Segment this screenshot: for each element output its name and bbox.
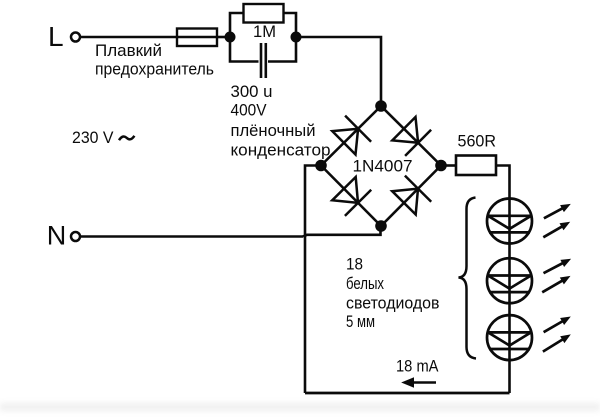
LED3 light arrow b: [543, 334, 571, 351]
bridge edge left-bottom: [321, 166, 381, 227]
diode D3: [332, 177, 371, 216]
resistor R1 1M: [244, 4, 284, 23]
wire bridge left to minus rail: [305, 166, 321, 394]
resistor R2 560R: [456, 156, 496, 176]
bridge edge top-right: [381, 106, 441, 166]
svg-text:1M: 1M: [253, 22, 276, 41]
wire N jog to bridge bottom: [303, 226, 381, 237]
LED3 light arrow a: [544, 317, 571, 333]
wire bottom rail: [305, 392, 510, 395]
svg-text:Плавкий: Плавкий: [95, 41, 162, 60]
svg-text:5 мм: 5 мм: [346, 312, 375, 331]
wire fuse to node A: [217, 36, 230, 39]
svg-text:18 mA: 18 mA: [396, 357, 439, 376]
svg-text:белых: белых: [346, 274, 384, 293]
svg-text:конденсатор: конденсатор: [231, 141, 331, 160]
svg-text:18: 18: [346, 255, 363, 274]
svg-text:1N4007: 1N4007: [353, 157, 413, 176]
wire bridge right to resistor: [441, 164, 456, 167]
bridge edge left-top: [321, 106, 381, 166]
diode D2: [392, 117, 431, 156]
svg-text:N: N: [47, 221, 67, 251]
fuse F1: [177, 29, 217, 47]
svg-text:предохранитель: предохранитель: [95, 60, 214, 79]
LED2 light arrow b: [542, 276, 570, 292]
wire top branch: [230, 13, 296, 37]
LED LED1: [487, 199, 532, 244]
svg-text:плёночный: плёночный: [231, 121, 316, 140]
terminal N: [71, 232, 80, 241]
node bridge bottom: [376, 221, 387, 232]
svg-text:L: L: [48, 21, 64, 52]
LED LED3: [487, 315, 532, 360]
LED1 light arrow a: [544, 204, 571, 218]
current direction arrow: [403, 378, 437, 387]
svg-text:300 u: 300 u: [231, 82, 273, 101]
diode D4: [392, 176, 431, 215]
wire bottom branch left: [230, 37, 259, 62]
LED2 light arrow a: [544, 259, 572, 273]
diode D1: [332, 116, 371, 155]
svg-text:400V: 400V: [231, 101, 268, 120]
bridge edge bottom-right: [381, 166, 441, 227]
wire resistor to LED chain: [496, 166, 510, 200]
capacitor C1: [261, 43, 266, 78]
node bridge right: [436, 160, 447, 171]
wire node B to bridge top: [296, 37, 381, 106]
LED1 light arrow b: [543, 222, 570, 238]
wire N: [81, 235, 304, 238]
svg-text:230 V: 230 V: [72, 128, 114, 147]
node bridge left: [316, 160, 327, 171]
brace LED group: [459, 198, 477, 359]
svg-text:светодиодов: светодиодов: [346, 294, 440, 313]
wire LED chain vertical: [508, 199, 511, 393]
node A junction: [225, 32, 235, 42]
faint scan smudge band: [0, 403, 600, 411]
wire L to fuse: [81, 36, 178, 39]
node bridge top: [376, 101, 387, 112]
LED LED2: [487, 258, 532, 303]
svg-text:560R: 560R: [458, 132, 497, 151]
terminal L: [71, 33, 80, 42]
node B junction: [291, 32, 301, 42]
wire bottom branch right: [268, 37, 296, 62]
